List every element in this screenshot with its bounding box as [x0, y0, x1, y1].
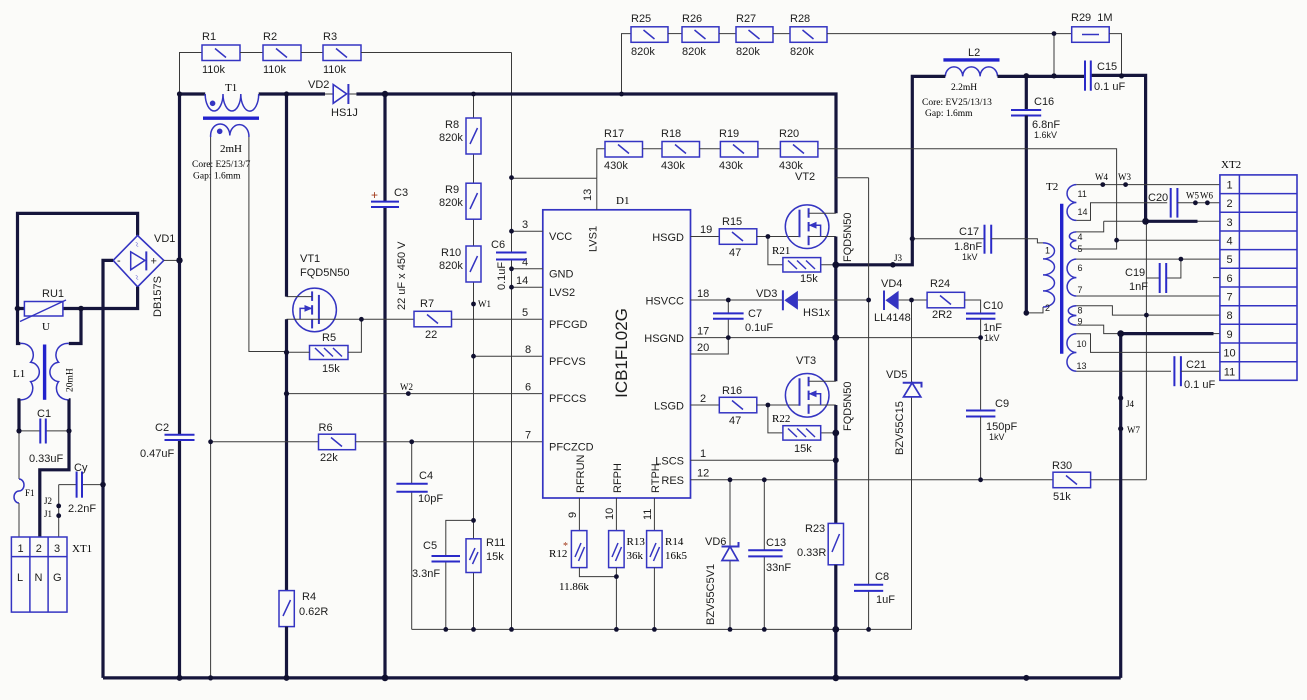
wire R17-R18	[643, 148, 663, 150]
svg-text:820k: 820k	[439, 260, 463, 272]
svg-text:Gap: 1.6mm: Gap: 1.6mm	[193, 172, 241, 182]
wire R27-R28	[773, 33, 790, 35]
wire R19-R20	[758, 148, 781, 150]
connector XT2	[1220, 159, 1297, 380]
wire L1 right top vertical	[69, 309, 81, 344]
svg-text:8: 8	[1226, 310, 1232, 322]
svg-text:G: G	[53, 572, 62, 584]
svg-text:2: 2	[1045, 303, 1050, 313]
svg-text:R16: R16	[722, 385, 742, 397]
resistor R19	[719, 128, 758, 172]
svg-text:430k: 430k	[661, 160, 685, 172]
svg-text:14: 14	[516, 275, 528, 287]
svg-text:16k5: 16k5	[665, 550, 688, 562]
wire top output bus y75	[998, 75, 1146, 221]
wire lead pin8 jog to XT2 pin8	[1076, 306, 1220, 315]
svg-text:2: 2	[1226, 198, 1232, 210]
wire inner ground rail	[412, 628, 912, 630]
resistor R1	[202, 31, 240, 76]
capacitor C5	[412, 540, 460, 580]
svg-text:W3: W3	[1118, 172, 1131, 182]
op-amp U1 IC D1 ICB1FL02G	[543, 195, 691, 498]
wire Cy left down to XT1 pin3	[58, 485, 60, 537]
svg-text:R2: R2	[263, 31, 277, 43]
svg-text:4: 4	[522, 257, 528, 269]
resistor R14	[647, 531, 688, 568]
resistor R24	[927, 278, 965, 321]
wire pin4 line to XT2	[1117, 239, 1220, 241]
svg-text:RES: RES	[661, 475, 684, 487]
wire VT3 source down	[834, 405, 837, 523]
svg-text:R8: R8	[445, 119, 459, 131]
svg-text:C5: C5	[423, 540, 437, 552]
pin 17 wire HSGND	[691, 326, 981, 338]
svg-text:LVS1: LVS1	[588, 226, 600, 252]
svg-text:430k: 430k	[604, 160, 628, 172]
diode VD3	[756, 288, 830, 319]
svg-text:R25: R25	[631, 13, 651, 25]
svg-text:15k: 15k	[322, 363, 340, 375]
svg-text:R30: R30	[1052, 460, 1072, 472]
svg-text:11.86k: 11.86k	[559, 581, 589, 593]
wire L2 left lead	[912, 76, 945, 240]
svg-text:36k: 36k	[627, 550, 644, 562]
resistor R6	[319, 422, 356, 464]
svg-text:R23: R23	[805, 523, 825, 535]
svg-text:820k: 820k	[736, 46, 760, 58]
pin 3 wire VCC	[512, 219, 543, 231]
resistor R29	[1071, 12, 1113, 42]
svg-text:7: 7	[525, 430, 531, 442]
svg-text:10: 10	[1077, 339, 1087, 349]
svg-text:47: 47	[729, 247, 741, 259]
svg-text:VT2: VT2	[795, 171, 815, 183]
svg-text:C8: C8	[875, 571, 889, 583]
wire R30 right lead	[1091, 479, 1147, 481]
svg-text:RTPH: RTPH	[650, 463, 662, 493]
node J2	[44, 496, 61, 508]
svg-text:0.62R: 0.62R	[299, 606, 328, 618]
wire R5 left lead	[287, 351, 310, 353]
svg-text:18: 18	[697, 288, 709, 300]
wire lead pin7 to XT2 pin7	[1076, 295, 1220, 297]
wire lead pin10 jog to XT2 pin10	[1076, 334, 1220, 353]
svg-text:LSGD: LSGD	[654, 401, 684, 413]
svg-text:430k: 430k	[719, 160, 743, 172]
wire R24 to C10	[965, 300, 981, 314]
resistor R27	[736, 13, 773, 58]
svg-text:10: 10	[604, 508, 616, 520]
wire R7 to PFCGD	[452, 318, 543, 320]
winding 8-9	[1068, 306, 1082, 327]
svg-text:6: 6	[1226, 273, 1232, 285]
svg-text:DB157S: DB157S	[152, 276, 164, 317]
svg-text:GND: GND	[549, 269, 574, 281]
svg-text:J4: J4	[1126, 399, 1135, 409]
capacitor C16	[1011, 76, 1060, 313]
svg-text:C20: C20	[1148, 192, 1168, 204]
wire R5 right lead	[348, 319, 361, 352]
winding 6-7	[1067, 259, 1082, 296]
wire R1-R2	[240, 52, 263, 54]
resistor R22	[768, 405, 836, 455]
capacitor C10	[966, 300, 1003, 343]
wire lead pin4	[1076, 221, 1103, 232]
svg-text:22k: 22k	[320, 452, 338, 464]
wire R28 to R29	[827, 33, 1072, 35]
svg-text:8: 8	[1078, 306, 1083, 316]
svg-text:W7: W7	[1127, 425, 1140, 435]
wire C17 to T2 primary	[991, 239, 1043, 243]
svg-text:C6: C6	[491, 239, 505, 251]
wire R20 to T2 column	[818, 149, 1117, 240]
wire R8 divider column	[473, 94, 475, 520]
capacitor C3	[371, 187, 408, 310]
svg-text:0.1uF: 0.1uF	[745, 322, 773, 334]
wire C20 to XT2 pin2	[1177, 202, 1220, 204]
svg-text:10: 10	[1223, 348, 1235, 360]
svg-text:Core: E25/13/7: Core: E25/13/7	[192, 160, 251, 170]
wire pin3 thick segment	[1146, 220, 1198, 223]
svg-text:5: 5	[522, 307, 528, 319]
svg-text:R28: R28	[790, 13, 810, 25]
svg-text:R26: R26	[682, 13, 702, 25]
resistor R8	[439, 118, 481, 154]
wire C21 to XT2 pin11	[1181, 370, 1220, 372]
svg-text:1kV: 1kV	[989, 432, 1005, 442]
wire lead pin11 to XT2 pin1	[1076, 184, 1220, 186]
wire R13 bottom	[615, 568, 617, 630]
svg-text:3: 3	[522, 219, 528, 231]
svg-text:C21: C21	[1186, 359, 1206, 371]
svg-text:-: -	[117, 255, 121, 267]
wire R29 right to bus	[1109, 34, 1121, 76]
capacitor C1	[19, 408, 69, 465]
svg-text:VCC: VCC	[549, 231, 572, 243]
svg-text:W1: W1	[478, 299, 491, 309]
capacitor C13	[748, 480, 791, 630]
wire VT1 drain	[285, 94, 288, 297]
svg-text:19: 19	[700, 224, 712, 236]
wire lead pin6 to XT2 pin5	[1076, 258, 1220, 260]
svg-text:W2: W2	[400, 382, 413, 392]
svg-text:HSVCC: HSVCC	[645, 296, 684, 308]
svg-text:RFPH: RFPH	[612, 463, 624, 493]
resistor R15	[719, 216, 757, 259]
wire bridge right lead	[164, 259, 180, 261]
svg-text:W5: W5	[1186, 191, 1199, 201]
wire VCC column vertical	[511, 53, 513, 630]
wire R23 bottom	[834, 565, 837, 678]
svg-text:15k: 15k	[486, 551, 504, 563]
resistor R17	[604, 128, 643, 172]
pin 9 stub RFRUN	[567, 498, 579, 531]
svg-text:1.6kV: 1.6kV	[1034, 130, 1057, 140]
node W7	[1118, 425, 1140, 435]
wire R6 to PFCZCD	[356, 441, 543, 443]
svg-text:RFRUN: RFRUN	[575, 454, 587, 493]
transistor VT1	[287, 253, 350, 332]
svg-text:R18: R18	[661, 128, 681, 140]
svg-text:HS1J: HS1J	[331, 107, 358, 119]
wire lead pin14 jog	[1076, 203, 1167, 221]
diode VD4	[869, 178, 928, 324]
svg-text:VT3: VT3	[796, 355, 816, 367]
svg-text:Core: EV25/13/13: Core: EV25/13/13	[922, 98, 992, 108]
svg-text:9: 9	[567, 512, 579, 518]
wire lead pin13 to C21	[1076, 370, 1171, 372]
svg-text:C15: C15	[1097, 61, 1117, 73]
resistor R13	[609, 531, 646, 568]
zener VD6	[705, 480, 739, 630]
wire PFCCS W2 line	[285, 393, 543, 395]
inductor L1	[13, 343, 76, 399]
svg-text:N: N	[35, 572, 43, 584]
capacitor C19	[1125, 259, 1181, 293]
pin 19 wire HSGD	[691, 224, 720, 237]
node W3	[1118, 172, 1131, 187]
svg-text:820k: 820k	[439, 132, 463, 144]
svg-text:820k: 820k	[682, 46, 706, 58]
svg-text:7: 7	[1226, 292, 1232, 304]
svg-text:C1: C1	[37, 408, 51, 420]
transformer T1	[192, 82, 259, 182]
svg-text:2.2nF: 2.2nF	[68, 503, 96, 515]
wire R25-R26	[668, 33, 682, 35]
wire R18-R19	[700, 148, 721, 150]
svg-text:11: 11	[642, 509, 654, 520]
wire C5 R11 branch	[446, 520, 474, 629]
svg-text:15k: 15k	[800, 273, 818, 285]
wire RES to R30	[981, 479, 1053, 481]
svg-text:HSGND: HSGND	[644, 333, 684, 345]
wire F1 to XT1 pin1	[18, 503, 20, 537]
wire rectified plus column	[178, 94, 181, 678]
svg-text:3: 3	[1226, 217, 1232, 229]
svg-text:110k: 110k	[263, 64, 287, 76]
wire R12 bottom jog	[579, 568, 616, 577]
svg-text:R1: R1	[202, 31, 216, 43]
svg-text:C2: C2	[155, 422, 169, 434]
svg-text:VD5: VD5	[886, 369, 907, 381]
wire R25 chain feed	[622, 34, 632, 94]
svg-text:FQD5N50: FQD5N50	[300, 267, 350, 279]
pin 18 wire HSVCC	[691, 288, 783, 300]
svg-text:0.1 uF: 0.1 uF	[1094, 81, 1125, 93]
svg-text:RU1: RU1	[42, 288, 64, 300]
svg-text:9: 9	[1226, 329, 1232, 341]
wire R26-R27	[719, 33, 736, 35]
resistor R5	[310, 332, 349, 375]
svg-text:R27: R27	[736, 13, 756, 25]
svg-text:R17: R17	[604, 128, 624, 140]
svg-text:1nF: 1nF	[1129, 281, 1148, 293]
svg-text:R4: R4	[302, 591, 316, 603]
svg-text:15k: 15k	[794, 443, 812, 455]
svg-text:10pF: 10pF	[418, 493, 443, 505]
svg-text:13: 13	[582, 189, 594, 201]
stub XT2 pin6	[1213, 277, 1220, 279]
svg-text:47: 47	[729, 415, 741, 427]
wire R4 bottom	[285, 627, 288, 678]
svg-text:T2: T2	[1046, 181, 1058, 193]
wire VT2 source down	[834, 237, 837, 382]
wire top left loop	[18, 213, 138, 308]
capacitor C17	[954, 225, 991, 262]
wire main bus y94 right	[356, 94, 836, 213]
node J4	[1118, 395, 1134, 409]
svg-text:8: 8	[525, 344, 531, 356]
resistor R12	[549, 531, 587, 568]
capacitor C7	[713, 300, 773, 338]
wire pin9 thick line	[1121, 332, 1214, 335]
wire L1 left bottom to C1	[19, 400, 20, 431]
svg-text:T1: T1	[225, 82, 237, 94]
resistor R7	[414, 298, 452, 341]
resistor R9	[439, 183, 481, 219]
svg-text:1: 1	[1045, 246, 1050, 256]
svg-text:PFCVS: PFCVS	[549, 356, 586, 368]
svg-text:R21: R21	[772, 245, 790, 257]
wire C1 right down to XT1 pin2	[40, 431, 69, 537]
wire PFCVS	[474, 355, 543, 357]
svg-text:R14: R14	[665, 536, 684, 548]
svg-text:3: 3	[54, 543, 60, 555]
svg-text:C4: C4	[419, 470, 433, 482]
svg-text:R22: R22	[772, 413, 790, 425]
resistor R3	[323, 31, 361, 76]
svg-text:2: 2	[700, 393, 706, 405]
zener VD5	[886, 300, 922, 629]
pin 2 wire LSGD	[691, 393, 720, 405]
svg-text:C19: C19	[1125, 267, 1145, 279]
wire R16 to VT3 gate	[757, 404, 800, 406]
svg-text:R10: R10	[441, 247, 461, 259]
svg-text:HS1x: HS1x	[803, 307, 830, 319]
svg-text:R6: R6	[319, 422, 333, 434]
svg-text:820k: 820k	[790, 46, 814, 58]
wire L1 right bottom to C1	[67, 400, 70, 431]
svg-text:VD4: VD4	[881, 278, 902, 290]
svg-text:33nF: 33nF	[766, 562, 791, 574]
svg-text:4: 4	[1226, 236, 1232, 248]
svg-text:LL4148: LL4148	[874, 312, 911, 324]
svg-text:PFCGD: PFCGD	[549, 319, 588, 331]
pin 1 wire LSCS	[691, 448, 836, 460]
capacitor C21	[1174, 356, 1215, 391]
wire R15 to VT2 gate	[757, 236, 800, 238]
svg-text:C3: C3	[394, 187, 408, 199]
svg-text:7: 7	[1078, 285, 1083, 295]
pin 14 wire LVS2	[512, 275, 543, 287]
pin 11 stub RTPH	[642, 498, 654, 531]
svg-text:2R2: 2R2	[932, 309, 952, 321]
svg-text:51k: 51k	[1053, 491, 1071, 503]
svg-text:BZV55C15: BZV55C15	[894, 401, 906, 455]
wire T1 secondary right lead	[249, 137, 287, 352]
svg-text:R15: R15	[722, 216, 742, 228]
svg-text:ICB1FL02G: ICB1FL02G	[612, 308, 631, 398]
svg-text:0.33R: 0.33R	[797, 547, 826, 559]
wire L1 left top	[18, 309, 21, 344]
svg-text:R7: R7	[420, 298, 434, 310]
bridge rectifier VD1	[113, 233, 175, 317]
resistor R25	[631, 13, 668, 58]
svg-text:C7: C7	[748, 308, 762, 320]
svg-text:R19: R19	[719, 128, 739, 140]
resistor R21	[768, 237, 836, 286]
wire VD4 feed from bus	[836, 177, 869, 179]
capacitor C15	[1085, 61, 1125, 94]
svg-text:Gap: 1.6mm: Gap: 1.6mm	[925, 109, 973, 119]
svg-text:R20: R20	[779, 128, 799, 140]
wire R14 bottom	[653, 568, 655, 630]
svg-text:1kV: 1kV	[962, 252, 978, 262]
svg-text:J3: J3	[894, 253, 903, 263]
pin 10 stub RFPH	[604, 498, 616, 531]
capacitor C2	[140, 422, 195, 460]
resistor R20	[779, 128, 818, 172]
svg-text:820k: 820k	[439, 197, 463, 209]
resistor R23	[797, 523, 844, 565]
svg-text:L: L	[17, 572, 23, 584]
wire R2-R3	[301, 52, 323, 54]
wire R1 feed vertical	[180, 53, 203, 95]
svg-text:20: 20	[697, 342, 709, 354]
svg-text:14: 14	[1078, 207, 1088, 217]
wire VD3 to VD4	[798, 299, 869, 301]
pin 12 wire RES	[691, 468, 981, 480]
svg-text:R9: R9	[445, 184, 459, 196]
svg-text:C9: C9	[995, 398, 1009, 410]
winding 4-5	[1069, 232, 1082, 254]
svg-text:PFCCS: PFCCS	[549, 393, 586, 405]
capacitor C8	[854, 300, 895, 629]
winding 10-13	[1067, 334, 1087, 371]
capacitor Cy	[59, 462, 103, 515]
inductor L2	[922, 47, 1000, 119]
svg-text:L1: L1	[13, 368, 25, 380]
svg-text:13: 13	[1077, 361, 1087, 371]
wire lead pin5	[1076, 240, 1116, 249]
svg-text:2mH: 2mH	[220, 143, 242, 155]
svg-text:5: 5	[1226, 254, 1232, 266]
svg-text:0.1uF: 0.1uF	[496, 262, 508, 290]
svg-text:FQD5N50: FQD5N50	[842, 381, 854, 431]
svg-text:C16: C16	[1034, 96, 1054, 108]
wire C10 to C9	[980, 338, 982, 411]
svg-text:*: *	[563, 541, 568, 552]
node W5	[1186, 191, 1199, 206]
svg-text:F1: F1	[25, 488, 35, 498]
wire C17 tap	[912, 238, 984, 240]
svg-text:J2: J2	[44, 496, 52, 506]
svg-text:2.2mH: 2.2mH	[951, 83, 977, 93]
wire VT1 source down	[285, 319, 288, 590]
svg-text:PFCZCD: PFCZCD	[549, 442, 594, 454]
resistor R4	[279, 591, 328, 627]
diode VD2	[308, 79, 358, 119]
svg-text:J1: J1	[44, 509, 52, 519]
wire R6 left lead	[211, 441, 319, 443]
svg-text:R11: R11	[486, 537, 505, 549]
svg-text:VD1: VD1	[154, 233, 175, 245]
node W4	[1095, 172, 1108, 187]
svg-text:VD3: VD3	[756, 288, 777, 300]
svg-text:VT1: VT1	[300, 253, 320, 265]
svg-text:C17: C17	[959, 226, 979, 238]
svg-text:HSGD: HSGD	[652, 232, 684, 244]
